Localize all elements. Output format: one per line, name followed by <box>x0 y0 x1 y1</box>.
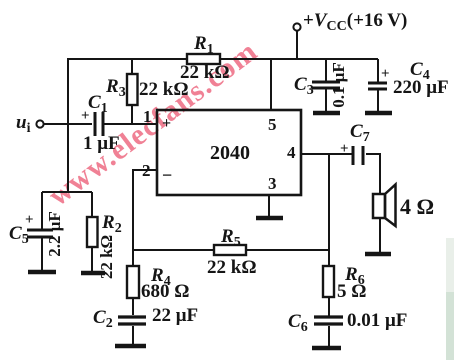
svg-text:0.01 μF: 0.01 μF <box>347 310 407 331</box>
svg-text:22 kΩ: 22 kΩ <box>180 62 230 83</box>
resistor R4 <box>127 265 189 302</box>
capacitor C5 <box>9 211 64 257</box>
wire R3 bottom <box>131 105 133 124</box>
ground under C3 <box>313 111 340 116</box>
svg-text:+: + <box>25 212 34 228</box>
wire C7 to speaker <box>366 154 380 194</box>
resistor R6 <box>323 264 366 302</box>
resistor R3 <box>105 74 189 105</box>
svg-text:22 μF: 22 μF <box>152 305 198 326</box>
wire C5 top <box>41 192 43 229</box>
svg-text:0.1 μF: 0.1 μF <box>329 62 348 108</box>
ground under C4 <box>365 111 392 116</box>
watermark www.elecfans.com <box>42 34 264 212</box>
capacitor C1 <box>81 92 120 154</box>
wire output vertical <box>328 154 330 266</box>
capacitor C2 <box>93 305 198 331</box>
svg-text:4: 4 <box>287 143 296 162</box>
resistor R2 <box>87 212 122 279</box>
wire left rail <box>67 58 69 193</box>
wire R3 top <box>131 59 133 74</box>
ground under C6 <box>312 346 341 351</box>
svg-text:5: 5 <box>268 115 277 134</box>
wire pin4 to C7 <box>301 153 352 155</box>
svg-text:680 Ω: 680 Ω <box>141 281 189 302</box>
svg-text:4 Ω: 4 Ω <box>400 194 434 219</box>
svg-text:1 μF: 1 μF <box>83 133 120 154</box>
resistor R1 <box>180 33 230 83</box>
wire C3 to ground <box>325 89 327 113</box>
svg-text:2.2 μF: 2.2 μF <box>45 211 64 257</box>
svg-text:22 kΩ: 22 kΩ <box>207 257 257 278</box>
svg-text:2040: 2040 <box>210 142 250 164</box>
svg-text:1: 1 <box>143 107 152 126</box>
capacitor C3 <box>294 62 348 108</box>
svg-text:+: + <box>340 141 349 157</box>
ground under C2 <box>115 344 146 349</box>
svg-text:5 Ω: 5 Ω <box>337 281 366 302</box>
capacitor C7 <box>340 121 370 165</box>
ground under C5 <box>28 270 56 275</box>
wire C3 drop <box>325 59 327 81</box>
wire pin5 stub <box>270 59 272 110</box>
svg-text:2: 2 <box>142 161 151 180</box>
svg-text:+VCC(+16 V): +VCC(+16 V) <box>303 10 407 34</box>
wire C5 R2 branch <box>42 191 92 193</box>
svg-text:3: 3 <box>268 174 277 193</box>
wire C6 to ground <box>328 326 330 347</box>
capacitor C6 <box>288 310 407 335</box>
svg-text:−: − <box>162 165 172 185</box>
wire R2 top <box>91 192 93 217</box>
wire speaker to ground <box>379 218 381 253</box>
wire pin2 jog <box>133 170 157 266</box>
terminal +Vcc <box>293 10 407 34</box>
wire R5 left <box>133 249 214 251</box>
wire input line right <box>104 123 157 125</box>
svg-text:+: + <box>381 66 390 82</box>
svg-text:220 μF: 220 μF <box>393 77 449 98</box>
wire C5 bottom <box>41 238 43 271</box>
wire C4 drop <box>377 59 379 82</box>
wire C2 to ground <box>132 326 134 346</box>
wire pin3 stub <box>268 195 270 217</box>
wire R6 to C6 <box>328 297 330 316</box>
speaker LS <box>373 185 434 227</box>
capacitor C4 <box>368 59 449 98</box>
wire input line left <box>44 123 92 125</box>
wire C4 to ground <box>377 90 379 113</box>
svg-text:+: + <box>162 115 171 132</box>
ground under speaker <box>365 252 391 257</box>
resistor R5 <box>207 226 257 278</box>
wire Vcc stub <box>296 31 298 59</box>
ground pin3 <box>256 216 283 221</box>
wire top rail right <box>220 58 378 60</box>
ground under R2 <box>81 271 105 276</box>
wire R2 bottom <box>91 247 93 272</box>
wire R5 right <box>246 249 329 251</box>
op-amp U1 2040 <box>142 107 301 195</box>
terminal u_i <box>16 112 44 136</box>
wire top rail left <box>68 58 187 60</box>
wire R4 to C2 <box>132 298 134 315</box>
